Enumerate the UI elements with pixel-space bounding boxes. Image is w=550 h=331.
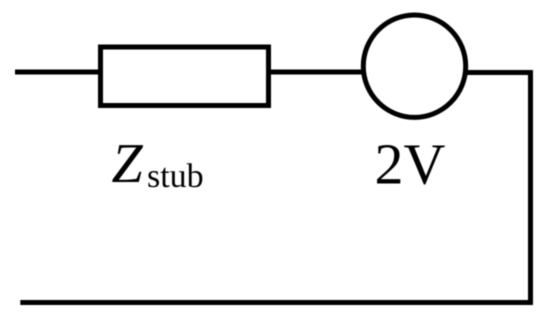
- svg-text:stub: stub: [147, 158, 204, 195]
- resistor Zstub body: [101, 47, 269, 106]
- wire: right vertical: [528, 70, 533, 304]
- wire: left port top lead: [15, 70, 101, 75]
- wire: bottom return: [20, 300, 533, 305]
- svg-text:2V: 2V: [375, 132, 446, 197]
- wire: source to right corner: [465, 70, 531, 75]
- wire: resistor to source: [268, 70, 364, 75]
- svg-text:Z: Z: [112, 133, 144, 195]
- voltage source V1 circle: [363, 15, 465, 117]
